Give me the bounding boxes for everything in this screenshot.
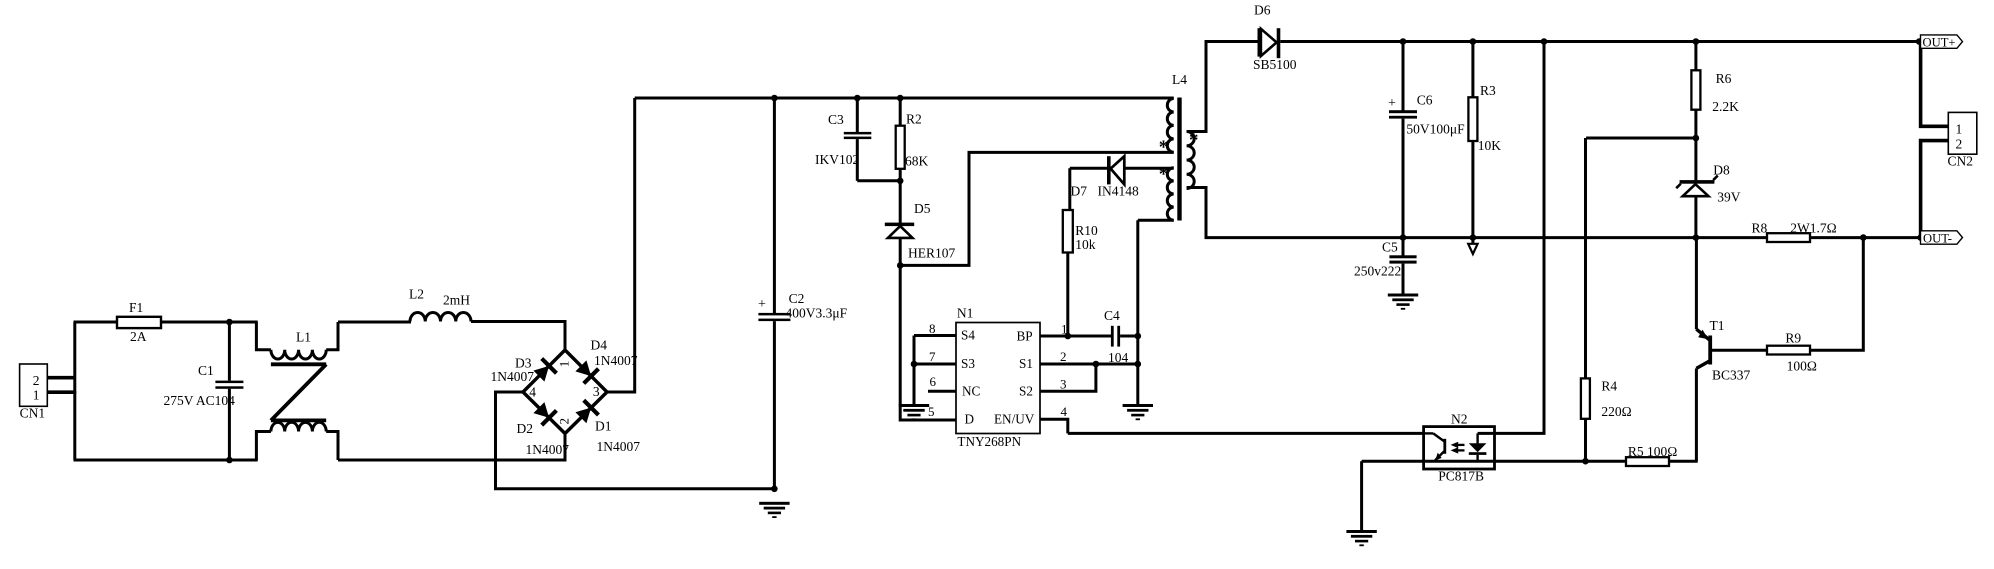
resistor R3 10K <box>1468 42 1501 238</box>
pin 2 S1 <box>1040 349 1138 364</box>
capacitor C6 50V100uF <box>1388 42 1465 238</box>
svg-text:1: 1 <box>1956 122 1963 137</box>
capacitor C2 400V3.3uF <box>758 98 848 489</box>
wire EN/UV to optocoupler <box>1068 432 1424 435</box>
wire HV top rail <box>635 97 1174 100</box>
node D5 anode / drain <box>897 262 904 269</box>
svg-text:1N4007: 1N4007 <box>526 442 570 457</box>
wire bottom rail L1 to bridge bottom <box>338 433 565 461</box>
ground bias winding <box>1123 404 1153 407</box>
wire opto emitter return to ground <box>1360 461 1363 530</box>
svg-text:HER107: HER107 <box>908 246 956 261</box>
transistor T1 BC337 <box>1696 318 1750 461</box>
node snubber R2/C3 <box>897 178 904 185</box>
svg-text:2: 2 <box>557 418 572 425</box>
transformer L4 secondary winding <box>1187 132 1195 189</box>
svg-text:L4: L4 <box>1172 72 1187 87</box>
node R6 top <box>1693 38 1700 45</box>
wire opto LED anode to output rail <box>1478 42 1544 434</box>
svg-text:275V AC104: 275V AC104 <box>164 393 236 408</box>
svg-text:R4: R4 <box>1601 379 1617 394</box>
node C1 top <box>226 319 233 326</box>
svg-text:3: 3 <box>1060 377 1067 392</box>
node D8 on OUT- rail <box>1693 234 1700 241</box>
svg-text:400V3.3μF: 400V3.3μF <box>786 306 848 321</box>
wire bottom rail CN1 to L1 <box>74 459 258 462</box>
svg-text:BC337: BC337 <box>1712 368 1751 383</box>
optocoupler N2 PC817B <box>1424 412 1495 484</box>
svg-text:D5: D5 <box>914 201 931 216</box>
svg-text:220Ω: 220Ω <box>1601 404 1631 419</box>
svg-text:R5 100Ω: R5 100Ω <box>1628 444 1677 459</box>
svg-text:2.2K: 2.2K <box>1712 99 1739 114</box>
svg-text:D4: D4 <box>591 338 608 353</box>
wire OUT- rail <box>1403 236 1921 239</box>
resistor R2 68K <box>896 98 929 182</box>
wire bridge node4 to primary return <box>496 392 775 489</box>
svg-text:2A: 2A <box>130 329 147 344</box>
node BP/R10/C4 <box>1065 333 1072 340</box>
svg-text:39V: 39V <box>1717 190 1741 205</box>
svg-text:N2: N2 <box>1451 412 1468 427</box>
svg-text:IN4148: IN4148 <box>1098 184 1139 199</box>
svg-text:+: + <box>1388 96 1396 111</box>
svg-text:C1: C1 <box>198 363 214 378</box>
resistor R6 2.2K <box>1691 42 1739 139</box>
svg-text:S1: S1 <box>1019 356 1033 371</box>
svg-text:D7: D7 <box>1071 184 1088 199</box>
transformer L4 bias winding <box>1138 168 1174 220</box>
svg-text:R2: R2 <box>906 112 922 127</box>
svg-text:D8: D8 <box>1713 163 1730 178</box>
wire secondary top to D6 rail <box>1187 42 1260 132</box>
svg-text:104: 104 <box>1108 350 1129 365</box>
svg-text:D: D <box>965 412 975 427</box>
resistor R9 100 <box>1767 331 1817 374</box>
wire OUT+ drop to CN2 pin1 <box>1921 42 1949 127</box>
svg-text:TNY268PN: TNY268PN <box>957 434 1021 449</box>
wire drain node down to D pin <box>900 265 956 420</box>
svg-text:4: 4 <box>1061 404 1068 419</box>
node C3 top <box>854 95 861 102</box>
svg-text:S2: S2 <box>1019 384 1033 399</box>
svg-text:2: 2 <box>33 373 40 388</box>
node R4 bottom <box>1582 458 1589 465</box>
capacitor C5 250v222 <box>1354 238 1417 294</box>
wire feedback vertical to R4 <box>1584 138 1587 378</box>
wire secondary bottom to OUT- rail <box>1187 188 1403 238</box>
svg-text:2: 2 <box>1956 137 1963 152</box>
node R8/R9 <box>1860 234 1867 241</box>
flag OUT+ <box>1921 35 1963 49</box>
node R3 bottom <box>1470 234 1477 241</box>
wire S4/S3 to ground <box>913 336 916 405</box>
svg-text:1N4007: 1N4007 <box>594 353 638 368</box>
svg-text:*: * <box>1159 164 1169 185</box>
resistor R4 220 <box>1581 378 1632 461</box>
svg-text:C2: C2 <box>789 291 805 306</box>
node C4 right / bias return <box>1135 333 1142 340</box>
light arrows inside N2 <box>1451 442 1465 454</box>
svg-text:D6: D6 <box>1254 3 1271 18</box>
node OUT+ corner <box>1916 38 1923 45</box>
op-amp U1 TNY268PN IC N1 box <box>956 306 1040 450</box>
svg-text:R8: R8 <box>1752 221 1768 236</box>
svg-text:1N4007: 1N4007 <box>597 439 641 454</box>
svg-text:CN1: CN1 <box>20 406 46 421</box>
wire CN1 pin2 up to fuse rail <box>73 322 76 393</box>
pin 7 S3 <box>914 349 956 364</box>
wire drain node to transformer primary <box>900 152 1173 265</box>
svg-text:CN2: CN2 <box>1948 154 1974 169</box>
node OUT- corner <box>1917 234 1924 241</box>
wire T1 base to R9 <box>1712 349 1767 352</box>
transistor inside N2 <box>1424 433 1447 460</box>
capacitor C4 104 <box>1068 308 1138 365</box>
wire output + rail <box>1280 40 1920 43</box>
node C5 top <box>1400 234 1407 241</box>
wire L2 to bridge top <box>471 322 565 352</box>
svg-text:F1: F1 <box>129 300 143 315</box>
svg-text:OUT+: OUT+ <box>1923 35 1956 49</box>
svg-text:SB5100: SB5100 <box>1253 57 1297 72</box>
bridge node 2 <box>557 418 572 425</box>
wire CN2 pin2 to OUT- rail <box>1921 141 1949 238</box>
svg-text:N1: N1 <box>957 306 974 321</box>
svg-text:1: 1 <box>33 388 40 403</box>
wire bias return down to ground <box>1136 220 1139 404</box>
svg-text:C5: C5 <box>1382 240 1398 255</box>
wire R5 to T1 emitter <box>1669 460 1698 463</box>
common-mode choke L1 <box>256 322 338 460</box>
svg-text:R9: R9 <box>1785 331 1801 346</box>
diode D5 HER107 <box>885 181 956 266</box>
capacitor C1 275VAC104 <box>164 322 244 460</box>
svg-text:D1: D1 <box>595 419 612 434</box>
diode D3 1N4007 (bridge top-left) <box>491 350 566 392</box>
diode D7 IN4148 <box>1070 156 1174 198</box>
svg-text:EN/UV: EN/UV <box>994 412 1035 427</box>
transformer L4 core <box>1172 72 1187 221</box>
svg-text:*: * <box>1159 137 1169 158</box>
ground IC source pins <box>899 404 929 407</box>
resistor R5 100 <box>1626 444 1677 466</box>
ground secondary C5 <box>1388 294 1418 297</box>
svg-text:10K: 10K <box>1478 138 1502 153</box>
svg-text:*: * <box>1189 130 1199 151</box>
pin 8 S4 <box>914 321 956 336</box>
diode D6 SB5100 <box>1253 3 1297 73</box>
svg-text:S4: S4 <box>961 328 975 343</box>
svg-text:PC817B: PC817B <box>1438 469 1484 484</box>
node C2 bottom / primary ground <box>771 486 778 493</box>
svg-text:2W1.7Ω: 2W1.7Ω <box>1790 221 1836 236</box>
bridge node 1 <box>557 361 572 368</box>
connector CN1 <box>20 364 75 421</box>
svg-text:S3: S3 <box>961 356 975 371</box>
wire bias winding bottom <box>1138 219 1174 222</box>
svg-text:+: + <box>758 297 766 312</box>
node opto feed <box>1541 38 1548 45</box>
svg-text:100Ω: 100Ω <box>1787 359 1817 374</box>
return arrow below R3 <box>1468 238 1477 254</box>
svg-text:NC: NC <box>962 384 981 399</box>
svg-text:BP: BP <box>1017 329 1033 344</box>
svg-text:R6: R6 <box>1716 71 1732 86</box>
svg-text:C6: C6 <box>1417 93 1433 108</box>
node R2 top <box>897 95 904 102</box>
pin 3 S2 <box>1040 364 1096 392</box>
node S1 to bias return <box>1135 361 1142 368</box>
svg-text:250v222: 250v222 <box>1354 264 1401 279</box>
ground optocoupler <box>1346 530 1376 533</box>
wire D8 to T1 emitter <box>1695 238 1698 330</box>
svg-text:C4: C4 <box>1104 308 1120 323</box>
diode D1 1N4007 (bridge bottom-right) <box>565 392 640 454</box>
svg-text:6: 6 <box>930 374 937 389</box>
wire top rail CN1 to F1 <box>74 321 119 324</box>
fuse F1 2A <box>117 300 161 344</box>
wire bridge node3 up to HV rail <box>607 98 635 392</box>
svg-text:8: 8 <box>929 321 936 336</box>
svg-text:IKV102: IKV102 <box>815 152 859 167</box>
svg-text:2mH: 2mH <box>443 293 470 308</box>
svg-text:C3: C3 <box>828 112 844 127</box>
svg-text:1: 1 <box>557 361 572 368</box>
capacitor C3 IKV102 <box>815 98 900 181</box>
svg-text:OUT-: OUT- <box>1923 231 1952 245</box>
svg-text:D2: D2 <box>517 421 534 436</box>
node R3 top <box>1470 38 1477 45</box>
pin 5 D <box>928 404 935 419</box>
node C1 bottom <box>226 457 233 464</box>
svg-text:R10: R10 <box>1075 223 1098 238</box>
connector CN2 <box>1948 112 1977 168</box>
wire R9 to OUT- rail <box>1810 238 1863 351</box>
pin 1 BP <box>1040 322 1068 337</box>
zener diode D8 39V <box>1676 138 1741 238</box>
node C6 top <box>1400 38 1407 45</box>
diode D2 1N4007 (bridge bottom-left) <box>517 392 570 457</box>
diode D4 1N4007 (bridge top-right) <box>565 338 638 393</box>
svg-text:2: 2 <box>1060 349 1067 364</box>
inductor L2 2mH <box>409 287 471 322</box>
wire opto bottom to R4/R5 <box>1362 460 1626 463</box>
svg-text:68K: 68K <box>905 154 929 169</box>
wire feedback tap to R4 <box>1586 137 1696 140</box>
resistor R10 10k <box>1063 168 1098 336</box>
wire CN1 pin1 down to bottom rail <box>73 391 76 460</box>
node C2 top <box>771 95 778 102</box>
wire F1 to C1 to L1 top <box>161 321 258 324</box>
node S1/S2 <box>1093 361 1100 368</box>
node R6/D8/feedback <box>1693 135 1700 142</box>
svg-text:50V100μF: 50V100μF <box>1406 122 1465 137</box>
flag OUT- <box>1921 231 1963 246</box>
svg-text:L1: L1 <box>296 330 311 345</box>
svg-text:1N4007: 1N4007 <box>491 369 535 384</box>
svg-text:R3: R3 <box>1480 83 1496 98</box>
svg-text:7: 7 <box>929 349 936 364</box>
resistor R8 2W1.7 <box>1752 221 1837 243</box>
pin 6 NC <box>928 374 956 391</box>
svg-text:L2: L2 <box>409 287 424 302</box>
ground primary <box>759 502 789 505</box>
pin 4 EN/UV <box>1040 404 1068 433</box>
LED inside N2 <box>1469 433 1487 461</box>
wire L1 to L2 <box>338 321 411 324</box>
svg-text:10k: 10k <box>1075 237 1096 252</box>
svg-text:T1: T1 <box>1710 318 1725 333</box>
transformer L4 primary winding <box>1167 99 1173 153</box>
